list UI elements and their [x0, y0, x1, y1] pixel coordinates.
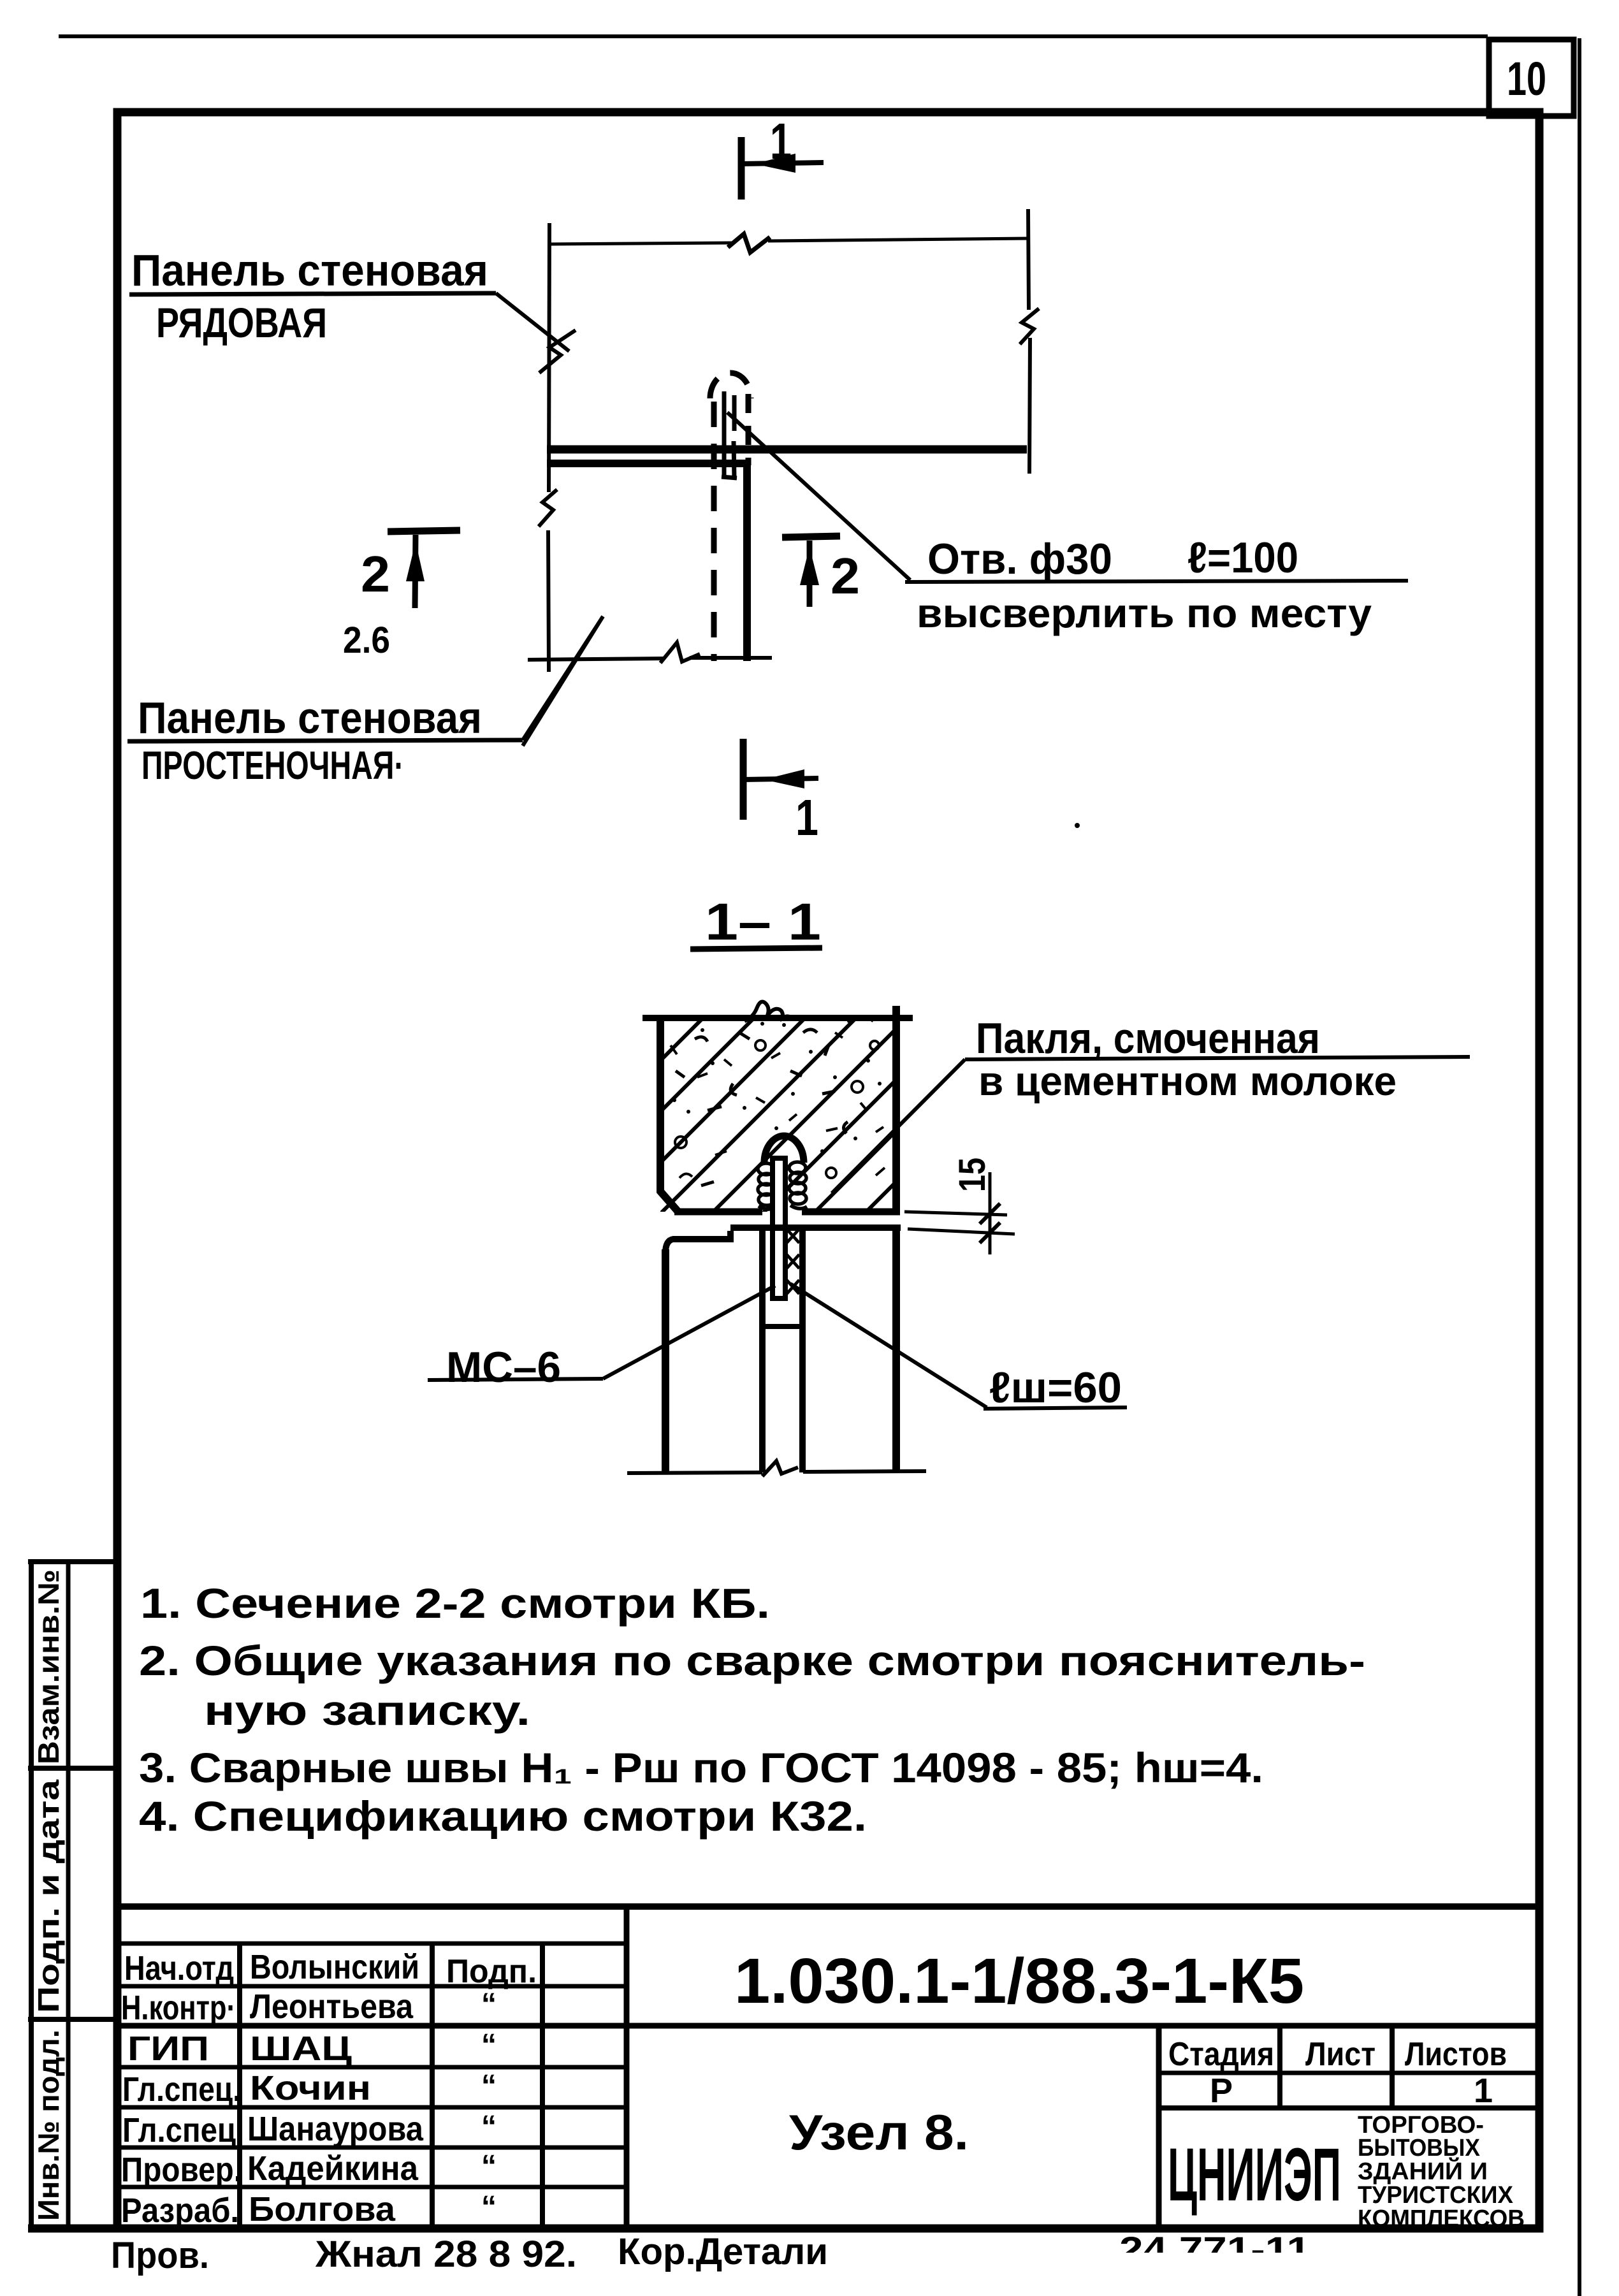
svg-text:Панель стеновая: Панель стеновая	[131, 245, 488, 295]
svg-text:Кадейкина: Кадейкина	[247, 2149, 419, 2188]
svg-text:1: 1	[1474, 2072, 1493, 2110]
title block row line b	[117, 1984, 627, 1989]
svg-text:ГИП: ГИП	[127, 2030, 209, 2068]
drilled hole dashed cap	[710, 373, 751, 398]
section marker 1 top: arrow	[754, 154, 795, 173]
svg-text:1: 1	[770, 113, 792, 170]
svg-text:“: “	[481, 2069, 497, 2103]
label prostenochnaya leader	[523, 616, 603, 740]
sidebar inner divider	[66, 1560, 71, 2228]
concrete panel hatching	[628, 954, 960, 1220]
svg-text:Панель стеновая: Панель стеновая	[138, 693, 482, 743]
concrete panel bottom edge right part	[802, 1209, 900, 1216]
sidebar divider line 2	[28, 2017, 117, 2022]
svg-text:1. Сечение 2-2 смотри КБ.: 1. Сечение 2-2 смотри КБ.	[140, 1580, 770, 1627]
svg-text:2: 2	[831, 548, 860, 604]
page top edge line	[59, 34, 1488, 38]
title block top edge	[117, 1903, 1539, 1910]
svg-text:Разраб.: Разраб.	[121, 2191, 239, 2230]
section title underline	[690, 948, 822, 949]
label paklya leader	[832, 1059, 965, 1193]
svg-text:Провер.: Провер.	[121, 2151, 242, 2189]
svg-text:“: “	[481, 2028, 497, 2062]
svg-text:ПРОСТЕНОЧНАЯ·: ПРОСТЕНОЧНАЯ·	[142, 744, 404, 788]
top edge break mark	[744, 1001, 794, 1021]
label underline	[129, 293, 496, 294]
title block column line 1	[237, 1944, 242, 2228]
svg-text:Инв.№ подл.: Инв.№ подл.	[32, 2030, 65, 2221]
svg-text:“: “	[481, 2190, 497, 2224]
svg-text:Взам.инв.№: Взам.инв.№	[32, 1569, 65, 1764]
anchor rod MS-6 in plan	[722, 391, 737, 479]
pier bottom break mark	[660, 643, 700, 663]
sidebar divider line 1	[28, 1766, 117, 1771]
outer right edge line	[1578, 38, 1581, 2296]
svg-text:Жнал 28 8 92.: Жнал 28 8 92.	[315, 2234, 577, 2275]
stray ink dot	[1075, 823, 1080, 828]
svg-text:высверлить по месту: высверлить по месту	[917, 590, 1372, 636]
svg-text:Гл.спец: Гл.спец	[122, 2111, 236, 2149]
svg-text:“: “	[481, 2110, 497, 2144]
svg-text:Н.контр·: Н.контр·	[121, 1989, 236, 2027]
svg-text:Листов: Листов	[1405, 2036, 1507, 2073]
svg-text:БЫТОВЫХ: БЫТОВЫХ	[1358, 2135, 1481, 2162]
concrete panel top edge	[643, 1015, 913, 1021]
svg-text:МС–6: МС–6	[446, 1343, 561, 1391]
pier panel step	[665, 1231, 730, 1253]
svg-text:Кочин: Кочин	[250, 2069, 371, 2107]
sidebar outer edge	[29, 1560, 34, 2228]
svg-text:в цементном молоке: в цементном молоке	[978, 1058, 1397, 1104]
svg-text:15: 15	[952, 1158, 993, 1192]
leader end break mark	[539, 330, 576, 373]
svg-text:3. Сварные швы Н₁ - Рш по ГОСТ: 3. Сварные швы Н₁ - Рш по ГОСТ 14098 - 8…	[139, 1744, 1263, 1791]
svg-text:ℓ=100: ℓ=100	[1187, 534, 1298, 582]
section marker 1 bottom: arrow	[764, 769, 804, 788]
svg-text:Кор.Детали: Кор.Детали	[618, 2231, 828, 2272]
svg-text:Отв. ф30: Отв. ф30	[927, 535, 1112, 583]
svg-text:Подп. и дата: Подп. и дата	[32, 1779, 65, 2013]
svg-text:“: “	[481, 2149, 497, 2183]
svg-text:1.030.1-1/88.3-1-К5: 1.030.1-1/88.3-1-К5	[734, 1945, 1304, 2017]
title block row line e	[117, 2105, 627, 2110]
label paklya underline	[965, 1057, 1470, 1059]
svg-text:ную записку.: ную записку.	[204, 1687, 530, 1734]
dim 15 tick upper	[980, 1203, 1000, 1224]
section marker 1 top: view line	[741, 163, 824, 164]
svg-text:Гл.спец.: Гл.спец.	[122, 2070, 241, 2109]
label MS-6 underline	[428, 1379, 603, 1380]
label prostenochnaya underline	[127, 740, 523, 741]
pier panel right edge	[892, 1228, 900, 1472]
joint slot right line	[799, 1228, 806, 1472]
svg-text:ШАЦ: ШАЦ	[250, 2030, 352, 2068]
svg-text:4. Спецификацию смотри К32.: 4. Спецификацию смотри К32.	[139, 1792, 867, 1840]
svg-text:Подп.: Подп.	[446, 1953, 537, 1990]
svg-text:Болгова: Болгова	[249, 2190, 396, 2228]
svg-text:10: 10	[1507, 52, 1546, 105]
svg-text:2. Общие указания по сварке см: 2. Общие указания по сварке смотри поясн…	[139, 1637, 1365, 1684]
title block row line c (full)	[117, 2023, 1539, 2029]
label leader	[496, 293, 569, 351]
section marker 1 top: vertical stroke	[738, 137, 745, 200]
joint slot left line	[759, 1228, 766, 1472]
title block row line a	[117, 1942, 627, 1946]
pier diagonal break line	[523, 616, 603, 746]
sidebar bottom line	[28, 2225, 121, 2233]
right edge break mark	[1020, 309, 1039, 344]
concrete panel right edge	[892, 1006, 900, 1215]
pier panel left edge	[662, 1249, 669, 1472]
section marker 2 left: shaft	[415, 535, 416, 608]
joint slot bottom connector	[762, 1324, 802, 1329]
svg-text:Пров.: Пров.	[111, 2235, 209, 2276]
title block column line 3	[540, 1944, 545, 2228]
pier panel top edge	[547, 460, 748, 467]
dim 15 extension line lower	[908, 1229, 1015, 1234]
anchor loop	[764, 1136, 804, 1163]
section marker 1 bottom: view line	[743, 778, 818, 780]
concrete speckles	[671, 1010, 885, 1186]
svg-text:2: 2	[361, 546, 390, 602]
sidebar top line	[28, 1559, 117, 1564]
label MS-6 leader	[603, 1286, 775, 1379]
svg-text:Пакля, смоченная: Пакля, смоченная	[976, 1014, 1320, 1063]
svg-text:2.6: 2.6	[343, 620, 390, 661]
svg-text:1– 1: 1– 1	[705, 893, 821, 951]
leader line to hole label	[727, 412, 910, 580]
section marker 2 left: bar	[388, 530, 460, 532]
left panel break edge (extension line)	[548, 223, 549, 672]
title block row line g	[117, 2185, 627, 2190]
svg-text:Стадия: Стадия	[1168, 2036, 1274, 2073]
dim 15 line	[989, 1172, 992, 1254]
dim 15 tick lower	[980, 1223, 1000, 1243]
concrete panel bottom edge left part	[674, 1209, 762, 1216]
dimension line	[549, 238, 1029, 244]
section marker 2 left: arrowhead	[406, 542, 425, 581]
list column line	[1390, 2026, 1395, 2108]
section marker 2 right: arrowhead	[800, 547, 819, 585]
svg-text:РЯДОВАЯ: РЯДОВАЯ	[156, 299, 327, 346]
ground line break mark	[762, 1461, 798, 1476]
oakum packing coils left	[758, 1163, 775, 1209]
weld marks	[787, 1229, 799, 1294]
oakum packing coils right	[789, 1162, 807, 1209]
ground break line	[627, 1471, 926, 1473]
svg-text:ТУРИСТСКИХ: ТУРИСТСКИХ	[1358, 2182, 1514, 2209]
dim 15 extension line upper	[904, 1212, 1007, 1215]
svg-text:Р: Р	[1210, 2072, 1233, 2110]
svg-text:“: “	[481, 1987, 497, 2021]
dimension line break mark	[728, 234, 770, 252]
svg-text:ЦНИИЭП: ЦНИИЭП	[1168, 2133, 1341, 2217]
pier panel right edge	[743, 463, 751, 661]
stadia column line	[1277, 2026, 1282, 2108]
svg-text:Узел 8.: Узел 8.	[789, 2104, 969, 2160]
upper wall panel bottom edge	[547, 446, 1027, 454]
title block row line d	[117, 2065, 627, 2070]
pier panel top surface right	[730, 1224, 901, 1231]
svg-text:Лист: Лист	[1305, 2036, 1376, 2073]
title block row line f	[117, 2146, 627, 2150]
concrete panel left edge with chamfer	[660, 1015, 678, 1212]
stadia value underline	[1159, 2105, 1539, 2111]
label lsh=60 underline	[984, 1407, 1127, 1409]
drilled hole dashed right side	[746, 394, 751, 465]
sheet number box	[1489, 40, 1574, 116]
pier panel bottom break line	[528, 658, 772, 660]
svg-text:Нач.отд: Нач.отд	[124, 1949, 234, 1987]
svg-text:Шанаурова: Шанаурова	[247, 2110, 424, 2148]
stadia header underline	[1159, 2071, 1539, 2075]
drilled hole dashed left side	[711, 402, 717, 661]
hole label underline	[905, 581, 1408, 582]
label lsh=60 leader	[790, 1284, 987, 1407]
svg-text:ℓш=60: ℓш=60	[989, 1363, 1122, 1412]
svg-text:1: 1	[795, 789, 818, 846]
svg-text:ЗДАНИЙ И: ЗДАНИЙ И	[1358, 2156, 1488, 2185]
title block column line 4	[624, 1907, 630, 2228]
right panel break edge (extension line)	[1028, 209, 1030, 474]
svg-text:КОМПЛЕКСОВ: КОМПЛЕКСОВ	[1358, 2205, 1525, 2232]
section marker 2 right: shaft	[807, 541, 813, 607]
title block column line 5	[1156, 2026, 1162, 2228]
section marker 2 right: bar	[782, 536, 840, 537]
svg-text:Леонтьева: Леонтьева	[250, 1987, 414, 2026]
section marker 1 bottom: vertical stroke	[740, 739, 747, 820]
left edge break mark	[539, 490, 557, 527]
svg-text:Волынский: Волынский	[250, 1948, 419, 1986]
title block column line 2	[430, 1944, 435, 2228]
anchor bar (section)	[773, 1158, 785, 1298]
